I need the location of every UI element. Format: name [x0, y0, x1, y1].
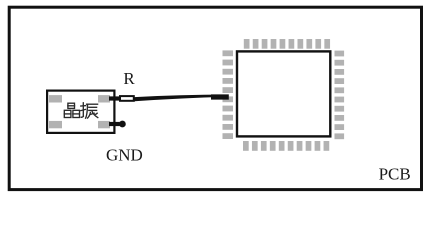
svg-text:GND: GND	[106, 146, 143, 165]
svg-text:R: R	[123, 69, 135, 88]
svg-text:PCB: PCB	[379, 165, 411, 184]
